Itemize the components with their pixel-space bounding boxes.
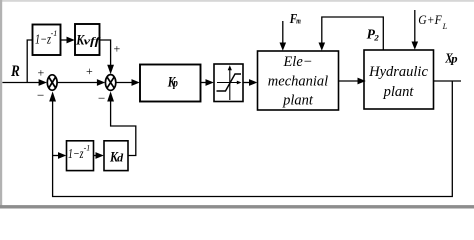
frame bottom grey band [0,205,474,208]
wire saturation to ele-mech plant [243,82,250,84]
wire branch feedback to lower 1-z^-1 [53,155,60,157]
svg-text:p: p [173,78,179,90]
arrow Kd feedback up into S2 [107,91,114,101]
arrow into Kd [96,152,104,159]
wire lower block to Kd [94,155,98,157]
svg-text:+: + [86,64,93,78]
arrow into summer S1 [39,79,47,86]
arrow feedback up into S1 [49,91,56,101]
svg-text:+: + [114,42,121,56]
wire P2 feedback from hydraulic top to ele-mech top [322,17,384,50]
block Kp [140,65,201,102]
wire feedback from output down and across bottom [53,81,453,197]
wire branch R up to feedforward block [27,40,32,83]
svg-text:-1: -1 [84,144,91,153]
arrow down into S2 [107,65,114,75]
svg-text:−: − [98,91,105,106]
arrow into ele-mech plant [249,79,257,86]
saturation horizontal axis [217,82,240,84]
wire Fm input [282,21,284,44]
arrow into S2 [97,79,105,86]
svg-text:p: p [450,53,458,65]
wire ele-mech to hydraulic [339,80,359,82]
summer S1 [47,75,57,90]
svg-text:plant: plant [383,84,415,100]
arrow into Kp [132,79,140,86]
block saturation [214,64,243,102]
wire Kp to saturation [201,82,208,84]
block Kvff [75,24,100,55]
wire S1 to S2 [57,82,97,84]
svg-text:2: 2 [373,33,379,43]
arrow into Kvff [67,37,75,44]
block Kd [104,141,128,171]
summer S2 [105,75,115,91]
wire G+FL input [414,10,416,43]
wire Kvff to summer S2 top [100,40,111,66]
svg-text:G+F: G+F [418,13,442,27]
block hydraulic plant [364,50,434,109]
arrow Fm into plant top [280,43,287,51]
arrow G+FL into hydraulic top [412,42,419,50]
svg-text:plant: plant [282,93,314,109]
svg-text:1−z: 1−z [35,32,52,47]
block 1-z^-1 (lower) [67,141,94,171]
frame left grey line [0,0,2,206]
saturation vertical axis [229,68,231,100]
svg-text:−: − [37,88,44,103]
svg-text:vff: vff [84,36,102,48]
label Hydraulic plant [368,64,428,100]
arrow into saturation [206,79,214,86]
svg-text:Hydraulic: Hydraulic [368,64,428,80]
svg-text:1−z: 1−z [68,146,84,161]
svg-text:m: m [296,15,301,25]
block 1-z^-1 (top) [33,25,61,56]
arrow into lower 1-z^-1 [58,152,66,159]
wire S2 to Kp [116,82,133,84]
wire Kd output up to S2 bottom [111,101,136,156]
frame top grey line [0,0,474,2]
svg-text:d: d [117,153,123,165]
svg-text:L: L [442,21,448,31]
arrow P2 into ele-mech top [319,43,326,51]
wire Xp output [434,80,462,82]
svg-text:-1: -1 [51,29,58,38]
wire top block to Kvff [61,39,69,41]
svg-text:mechanial: mechanial [268,74,328,90]
svg-text:R: R [10,63,20,80]
svg-text:Ele−: Ele− [282,54,312,70]
svg-text:+: + [38,66,45,80]
wire R input [2,82,39,84]
block ele-mechanical plant [258,51,339,110]
label Ele-mechanial plant [268,54,328,109]
arrow into hydraulic [358,78,366,85]
saturation curve [217,74,242,91]
